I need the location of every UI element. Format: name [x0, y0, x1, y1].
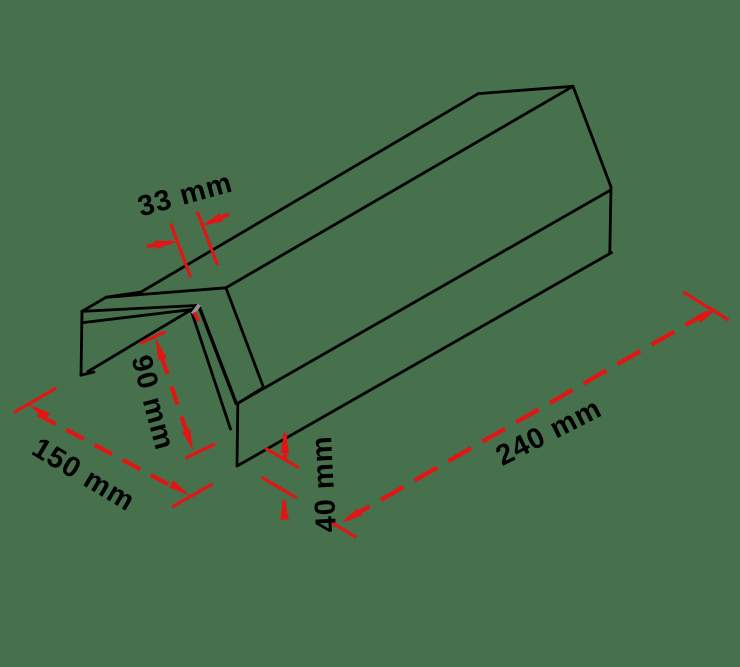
edge long ridge P-A: [226, 86, 573, 287]
edge overhang Rout-R: [238, 387, 264, 403]
edge left-wall L1-L2: [81, 311, 82, 375]
dim 33mm: [147, 212, 229, 278]
node junction-red: [194, 313, 199, 322]
edge inner-slope Qb-Q: [88, 306, 198, 372]
svg-text:90 mm: 90 mm: [125, 352, 181, 454]
svg-text:33 mm: 33 mm: [134, 167, 236, 224]
edge inner-wall-near thick: [199, 305, 237, 403]
edge left-wall-bottom: [81, 372, 94, 375]
node junction-gray: [193, 305, 200, 315]
dim 90mm: [140, 332, 215, 458]
edge far-lip C-D: [610, 187, 611, 253]
edge long flange T-B: [141, 94, 478, 292]
edge flange-near F-T: [106, 292, 141, 297]
edge inner-wall-near thin: [191, 310, 231, 429]
svg-text:240 mm: 240 mm: [491, 392, 607, 472]
edge flange-left L1-F: [82, 297, 106, 311]
svg-text:150 mm: 150 mm: [26, 432, 140, 518]
svg-text:40 mm: 40 mm: [306, 435, 343, 533]
edge long bend R-C: [238, 191, 609, 403]
edge top-near-inner L1-Q2: [82, 305, 199, 311]
edge long bottom Rb-D: [238, 253, 612, 466]
dim 40mm: [261, 431, 298, 520]
edge lip-near R-Rb: [236, 403, 240, 466]
dim 150mm: [14, 388, 213, 507]
edge top-near F-P: [106, 288, 226, 298]
edge far-top B-A: [478, 86, 573, 93]
edge right-wall-near P-Rout: [226, 288, 264, 388]
edge top-near-inner2: [84, 310, 192, 323]
edge far-right A-C: [573, 86, 611, 187]
dim 240mm: [331, 292, 729, 538]
